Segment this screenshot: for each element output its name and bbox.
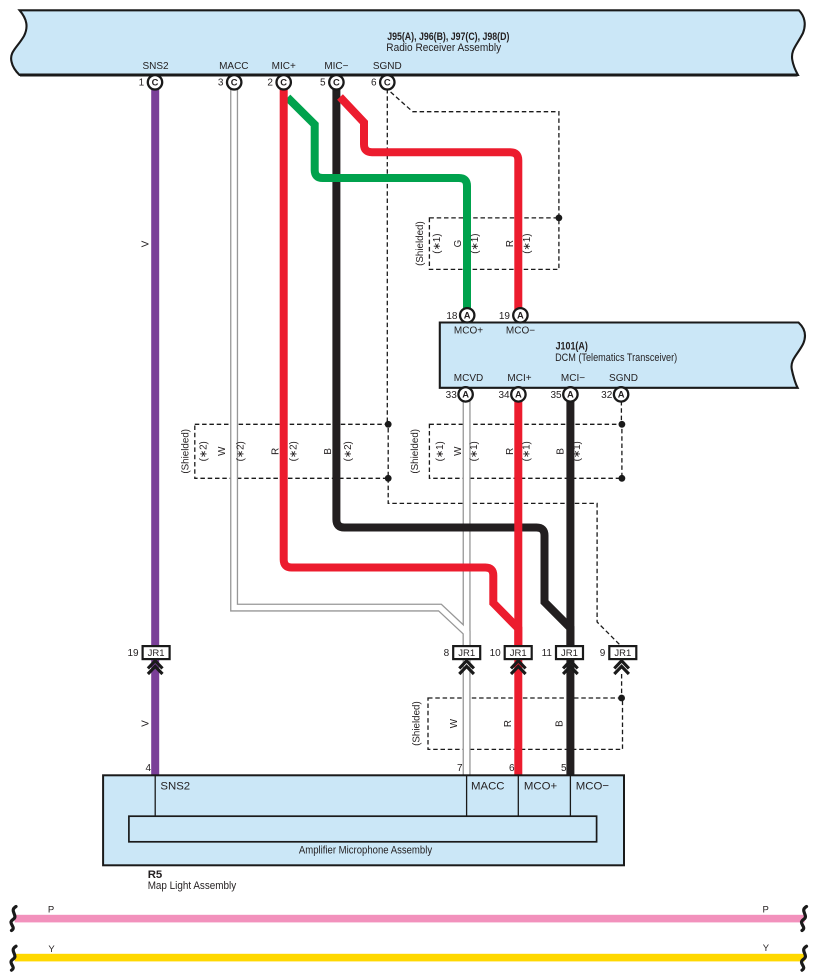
svg-text:9: 9 [600,648,606,659]
svg-text:(∗2): (∗2) [199,441,210,461]
svg-text:MCI−: MCI− [561,373,585,384]
svg-text:Map Light Assembly: Map Light Assembly [148,880,237,892]
svg-text:C: C [231,77,238,88]
svg-text:(Shielded): (Shielded) [180,429,191,474]
svg-text:W: W [453,446,464,456]
svg-text:JR1: JR1 [614,648,631,659]
svg-text:1: 1 [139,77,145,88]
svg-text:7: 7 [457,763,463,774]
svg-text:A: A [567,389,574,400]
svg-text:DCM (Telematics Transceiver): DCM (Telematics Transceiver) [555,352,677,364]
svg-text:(Shielded): (Shielded) [412,701,423,746]
svg-text:35: 35 [550,390,562,401]
svg-text:W: W [449,718,460,728]
svg-text:MCO+: MCO+ [524,781,558,793]
svg-text:C: C [384,77,391,88]
svg-text:4: 4 [145,763,151,774]
svg-text:(∗2): (∗2) [343,441,354,461]
svg-text:MIC+: MIC+ [272,61,296,72]
svg-text:B: B [323,448,334,455]
svg-text:R: R [505,240,516,247]
svg-text:A: A [515,389,522,400]
svg-text:MCO+: MCO+ [454,325,483,336]
svg-text:V: V [141,720,152,727]
svg-text:18: 18 [446,311,458,322]
svg-text:(∗1): (∗1) [432,234,443,254]
svg-text:19: 19 [499,311,511,322]
svg-text:Amplifier Microphone Assembly: Amplifier Microphone Assembly [299,845,433,857]
svg-text:2: 2 [267,77,273,88]
svg-text:Y: Y [763,943,770,954]
svg-text:A: A [464,310,471,321]
svg-text:MACC: MACC [219,61,248,72]
svg-text:10: 10 [490,648,502,659]
svg-text:MCI+: MCI+ [507,373,531,384]
svg-text:33: 33 [446,390,458,401]
svg-text:Radio Receiver Assembly: Radio Receiver Assembly [386,42,501,54]
svg-text:(Shielded): (Shielded) [410,429,421,474]
svg-text:MACC: MACC [471,781,505,793]
svg-text:(∗1): (∗1) [522,234,533,254]
svg-text:W: W [217,446,228,456]
svg-text:(∗1): (∗1) [572,441,583,461]
svg-text:3: 3 [218,77,224,88]
svg-text:A: A [517,310,524,321]
svg-text:SNS2: SNS2 [160,781,190,793]
svg-text:SGND: SGND [609,373,638,384]
svg-text:C: C [333,77,340,88]
svg-text:B: B [556,448,567,455]
svg-text:P: P [48,905,54,916]
svg-text:SNS2: SNS2 [142,61,169,72]
svg-text:JR1: JR1 [458,648,475,659]
svg-text:A: A [462,389,469,400]
svg-text:5: 5 [561,763,567,774]
svg-text:V: V [141,240,152,247]
svg-text:(∗1): (∗1) [522,441,533,461]
svg-text:32: 32 [601,390,613,401]
svg-text:R: R [503,720,514,727]
svg-text:R: R [271,448,282,455]
svg-text:19: 19 [127,648,139,659]
svg-text:JR1: JR1 [510,648,527,659]
svg-text:(∗1): (∗1) [435,441,446,461]
svg-text:8: 8 [444,648,450,659]
svg-text:B: B [555,720,566,727]
svg-text:6: 6 [509,763,515,774]
svg-text:11: 11 [542,648,553,659]
svg-text:MCVD: MCVD [454,373,483,384]
svg-text:5: 5 [320,77,326,88]
svg-text:(∗2): (∗2) [236,441,247,461]
svg-text:JR1: JR1 [561,648,578,659]
svg-text:R: R [505,448,516,455]
svg-text:34: 34 [498,390,510,401]
svg-text:MCO−: MCO− [576,781,610,793]
svg-text:MIC−: MIC− [324,61,348,72]
svg-text:MCO−: MCO− [506,325,535,336]
svg-text:(∗1): (∗1) [469,441,480,461]
svg-text:(∗2): (∗2) [289,441,300,461]
svg-text:(∗1): (∗1) [470,234,481,254]
svg-text:Y: Y [48,944,55,955]
svg-text:JR1: JR1 [148,648,165,659]
svg-text:C: C [152,77,159,88]
svg-text:A: A [618,389,625,400]
svg-text:C: C [280,77,287,88]
svg-text:G: G [453,240,464,248]
svg-text:J101(A): J101(A) [556,341,589,353]
svg-text:P: P [763,904,769,915]
svg-text:6: 6 [371,77,377,88]
svg-text:SGND: SGND [373,61,402,72]
svg-text:(Shielded): (Shielded) [415,221,426,266]
